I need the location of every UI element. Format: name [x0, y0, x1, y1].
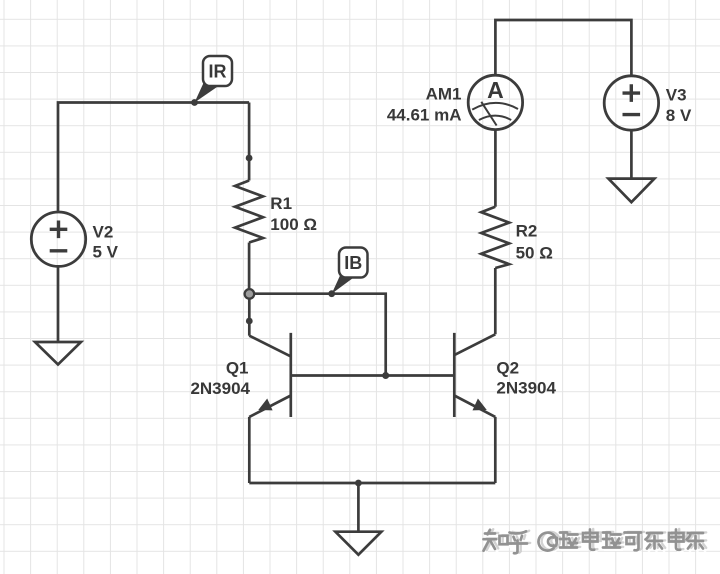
svg-text:2N3904: 2N3904 — [190, 379, 250, 398]
svg-text:Q1: Q1 — [226, 358, 249, 377]
label Q1 value — [190, 358, 250, 398]
wire — [494, 268, 497, 334]
svg-text:R1: R1 — [270, 194, 292, 213]
node — [382, 372, 389, 379]
flag IB — [332, 248, 368, 294]
wire — [248, 294, 251, 336]
node — [246, 155, 253, 162]
svg-text:44.61 mA: 44.61 mA — [387, 105, 462, 124]
svg-text:R2: R2 — [516, 222, 538, 241]
wire — [248, 103, 251, 181]
label V2 value — [93, 223, 119, 262]
label V3 value — [666, 85, 692, 125]
wire — [630, 130, 633, 179]
wire — [357, 483, 360, 532]
flag IR — [195, 56, 233, 103]
ammeter AM1 — [468, 75, 522, 129]
ground — [335, 532, 381, 555]
node — [246, 318, 253, 325]
wire — [494, 129, 497, 206]
ground — [35, 342, 81, 365]
label AM1 value — [387, 84, 462, 124]
ground — [608, 179, 654, 203]
wire — [495, 20, 631, 76]
svg-text:IR: IR — [209, 62, 227, 82]
svg-text:AM1: AM1 — [426, 84, 462, 103]
wire — [494, 417, 497, 483]
svg-text:50 Ω: 50 Ω — [516, 244, 553, 263]
wire — [57, 266, 60, 342]
svg-text:V2: V2 — [93, 223, 114, 242]
svg-text:IB: IB — [344, 253, 362, 273]
resistor R1 — [235, 181, 263, 243]
svg-text:A: A — [487, 77, 504, 103]
svg-text:V3: V3 — [666, 85, 687, 104]
wire — [291, 374, 455, 377]
wire — [249, 294, 385, 376]
node IB — [328, 290, 335, 297]
node — [355, 480, 362, 487]
svg-text:Q2: Q2 — [496, 358, 519, 377]
svg-text:8 V: 8 V — [666, 106, 692, 125]
wire — [249, 482, 495, 485]
wire — [248, 243, 251, 294]
resistor R2 — [481, 207, 509, 268]
label R2 value — [516, 222, 553, 263]
svg-text:100 Ω: 100 Ω — [270, 215, 317, 234]
svg-text:2N3904: 2N3904 — [496, 379, 556, 398]
label R1 value — [270, 194, 317, 234]
svg-text:5 V: 5 V — [93, 243, 119, 262]
wire — [58, 103, 249, 213]
wire — [248, 417, 251, 483]
transistor Q1 — [249, 333, 290, 417]
node IR — [191, 99, 198, 106]
voltage source V2 — [31, 212, 85, 266]
watermark — [484, 529, 707, 555]
node (gray junction) — [245, 289, 255, 299]
label Q2 value — [496, 358, 556, 397]
transistor Q2 — [454, 333, 495, 417]
voltage source V3 — [604, 76, 658, 130]
